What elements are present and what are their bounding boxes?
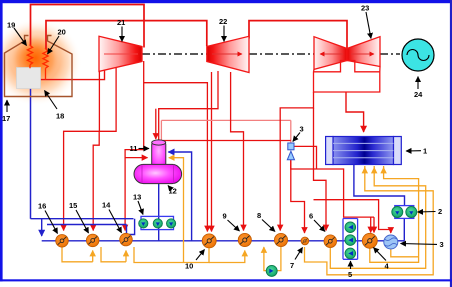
condenser 1 body [333, 137, 394, 165]
wire feedwater down arrow to heater 16 [41, 219, 43, 236]
wire cold reheat turbine 21 to boiler [41, 67, 105, 80]
svg-text:15: 15 [69, 201, 77, 210]
svg-text:14: 14 [102, 201, 111, 210]
heater 4 [362, 233, 377, 248]
deaerator dome 11 cap [152, 140, 166, 145]
shaft turbine 23 to generator 24 [380, 53, 400, 55]
generator 24 sine symbol [407, 50, 429, 61]
wire extraction to heater 10 right [211, 72, 213, 232]
label 20 [48, 28, 66, 55]
wire drain heater 10 to heater 9 [209, 251, 245, 263]
drain pump impeller [269, 269, 273, 274]
heater 10 tube symbol [205, 237, 214, 246]
wire feedwater second header [47, 224, 127, 226]
pump 5 b impeller [348, 238, 353, 243]
wire condensate from condenser [354, 164, 405, 206]
wire header drop to deaerator [160, 120, 162, 140]
svg-text:20: 20 [58, 28, 66, 37]
wire drain heater 15 to 14 [101, 247, 126, 262]
pump 5 a [345, 222, 356, 233]
wire deaerator steam arrow [155, 109, 157, 139]
wire extraction to heater 10 left [144, 83, 208, 232]
pump 13 b impeller [156, 222, 160, 226]
wire drain heater 8 to pump [277, 247, 281, 271]
pump 13 c impeller [169, 222, 173, 226]
turbine 22 flow arrow [212, 53, 242, 55]
heater 16 [56, 235, 69, 248]
heater 16 tube symbol [58, 237, 67, 245]
wire steam to gland condenser 3 arrow [390, 230, 392, 234]
svg-text:23: 23 [361, 4, 369, 13]
wire extraction to heater 15 [93, 131, 99, 230]
svg-text:21: 21 [117, 18, 125, 27]
turbine 23 right flow [347, 37, 380, 67]
furnace glow core [9, 32, 61, 84]
label 21 [117, 18, 125, 42]
wire drain arrow into heater 14 [125, 251, 127, 262]
wire drain heater 4 and gland condenser inner loop [370, 168, 419, 263]
wire turbine 23 exhaust to condenser [346, 92, 364, 132]
heater 15 tube symbol [88, 236, 97, 244]
svg-text:3: 3 [300, 125, 304, 134]
label 1 [406, 147, 427, 156]
deaerator tank 12 [134, 164, 182, 183]
wire heater 4 inlet arrow right [373, 217, 375, 232]
border frame left [0, 0, 3, 281]
heater 8 [274, 233, 287, 246]
wire extraction to heater 8 [280, 92, 313, 231]
turbine 23 left flow arrow [320, 53, 343, 55]
pump 13 b [153, 219, 162, 228]
gland steam condenser 3 [384, 235, 398, 249]
label 6 [309, 212, 325, 232]
svg-text:11: 11 [130, 144, 138, 153]
wire drain gland condenser 3 [391, 250, 419, 257]
shaft turbine 22 to 23 [249, 53, 314, 55]
svg-text:5: 5 [348, 270, 352, 279]
svg-text:13: 13 [133, 193, 141, 202]
wire valve 3 inlet drop [290, 120, 292, 143]
wire crossover turbine 22 to turbine 23 [249, 21, 347, 50]
svg-text:3: 3 [440, 240, 444, 249]
wire drains left heaters cascade [62, 247, 93, 262]
condensate pumps 2 manifold [395, 206, 414, 219]
condensate pump 2 a impeller [395, 211, 399, 215]
heater 14 tube symbol [122, 236, 131, 244]
wire steam to gland condenser 3 [314, 200, 390, 230]
heater 9 tube symbol [240, 236, 249, 245]
label 13 [133, 193, 143, 215]
wire drain heater 6 middle loop [330, 168, 425, 269]
heater 7 tube symbol [302, 238, 307, 243]
heater 8 tube symbol [276, 236, 285, 245]
pump 13 a impeller [141, 222, 145, 226]
label 16 [38, 202, 58, 234]
svg-text:16: 16 [38, 202, 46, 211]
wire main steam line boiler to turbine 21 [31, 5, 145, 48]
turbine 21 [99, 36, 142, 71]
label 3 gland condenser [401, 240, 444, 249]
label 22 [219, 17, 227, 42]
pump 5 c [345, 248, 356, 259]
wire condensate to deaerator riser [168, 152, 191, 241]
heater 14 [120, 233, 133, 246]
gland condenser hatch [385, 238, 397, 246]
label 19 [7, 21, 27, 46]
border frame top [0, 0, 452, 3]
condensate pump 2 b [406, 207, 417, 218]
label 8 [257, 211, 275, 232]
wire drains collect to deaerator lift [134, 247, 209, 263]
wire valve 3 to heater 4 [291, 160, 374, 217]
heater 4 tube symbol [365, 236, 375, 245]
label 10 [185, 250, 205, 271]
wire main feedwater line [42, 240, 405, 242]
wire extraction drop turbine 22 [159, 71, 218, 141]
wire extraction drop from turbine 21 [99, 66, 116, 131]
svg-text:2: 2 [438, 207, 442, 216]
wire extraction to heater 14 [125, 61, 144, 231]
pump 13 a [139, 219, 148, 228]
heater 9 [238, 233, 251, 246]
generator 24 [402, 39, 434, 71]
label 14 [102, 201, 122, 233]
reheater coil 20 [43, 48, 48, 80]
svg-text:8: 8 [257, 211, 261, 220]
svg-text:1: 1 [423, 147, 427, 156]
label 17 [2, 100, 10, 123]
deaerator tank seam lines [142, 165, 174, 184]
wire drain lift to deaerator [169, 158, 184, 263]
wire valve 3 to heater 7 [291, 160, 305, 233]
label 4 [374, 248, 390, 271]
wire feedwater blue riser to boiler [30, 88, 32, 219]
wire feedwater upper header [31, 218, 134, 220]
label 15 [69, 201, 89, 233]
condensate pump 2 b impeller [409, 211, 413, 215]
boiler 17 outline left wall [5, 36, 73, 97]
svg-text:17: 17 [2, 114, 10, 123]
label 2 [418, 207, 443, 216]
label 9 [223, 212, 240, 231]
turbine 23 exhaust hood [314, 67, 381, 93]
svg-text:18: 18 [56, 112, 64, 121]
deaerator dome 11 [152, 143, 166, 171]
svg-text:6: 6 [309, 212, 313, 221]
label 11 [130, 144, 150, 153]
label 23 [361, 4, 371, 39]
pump 5 c impeller [348, 251, 353, 256]
label 7 [290, 248, 303, 271]
wire deaerator downcomer to pumps 13 [158, 184, 160, 241]
pump group 13 manifold [141, 216, 174, 229]
svg-text:7: 7 [290, 261, 294, 270]
condenser 1 left water box [326, 137, 333, 165]
wire condensate pump discharge [403, 218, 405, 241]
drain pump at heater 8 [266, 265, 277, 276]
condenser 1 tube lines [333, 143, 394, 157]
wire heater 4 inlet arrow left [370, 217, 372, 232]
svg-text:22: 22 [219, 17, 227, 26]
pump 5 a impeller [348, 225, 353, 230]
pump 5 b [345, 235, 356, 246]
turbine 23 hood top edge [314, 61, 380, 72]
furnace glow [0, 18, 82, 106]
pump group 5 manifold [343, 219, 358, 260]
superheater coil 19 [27, 45, 32, 69]
heater 7 [301, 237, 309, 245]
turbine 22 [207, 36, 249, 72]
heater 10 [202, 234, 216, 248]
pump 13 c [167, 219, 176, 228]
steam drum 18 [17, 68, 41, 89]
turbine 23 right flow arrow [351, 53, 374, 55]
condensate pump 2 a [392, 207, 403, 218]
wire deaerator balance line to valve 3 [160, 139, 290, 142]
wire drain heater 7 outer loop [305, 168, 434, 275]
wire header end loop at heater 14 [127, 219, 135, 235]
wire header to valve 3 [161, 119, 290, 121]
label 18 [45, 91, 65, 121]
condenser drain arrows into bottom [365, 166, 384, 172]
svg-text:9: 9 [223, 212, 227, 221]
turbine 23 left flow [314, 37, 347, 70]
wire steam to deaerator from heater 14 line [125, 157, 147, 159]
turbine 21 flow line [104, 53, 138, 55]
wire extraction to heater 16 [64, 69, 100, 231]
wire drain pump forward to feed line [264, 247, 266, 271]
label 24 [414, 77, 423, 100]
label 12 [168, 186, 177, 196]
heater 6 tube symbol [326, 237, 335, 245]
shaft turbine 21 to 22 [142, 53, 207, 55]
wire extraction to heater 9 [231, 72, 244, 231]
label 5 [348, 261, 352, 279]
border frame bottom [0, 279, 452, 281]
wire drain arrow into heater 15 [92, 251, 94, 262]
wire extraction to heater 6 [314, 108, 327, 231]
heater 6 [324, 235, 337, 248]
border frame right [450, 0, 452, 287]
wire hot reheat line boiler to turbine 22 [46, 21, 207, 49]
label 3 valve [293, 125, 304, 142]
condenser 1 right water box [394, 137, 402, 165]
svg-text:10: 10 [185, 262, 193, 271]
svg-text:24: 24 [414, 90, 423, 99]
wire valve 3 side outlet [294, 146, 317, 169]
pressure reducing valve 3 [288, 143, 294, 150]
valve 3 cone [287, 151, 294, 160]
heater 15 [86, 234, 99, 247]
